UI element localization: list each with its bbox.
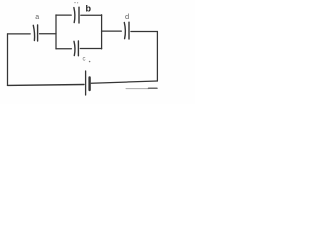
capacitor d (124, 22, 129, 39)
wire box to d (102, 30, 122, 32)
capacitor c (74, 41, 78, 56)
wire bottom right (91, 81, 157, 83)
node left rail (55, 15, 57, 49)
battery (86, 71, 90, 95)
wire right vertical (156, 32, 158, 82)
wire bottom left (8, 84, 85, 87)
speck marks (74, 2, 75, 3)
wire bottom branch right (80, 48, 101, 50)
svg-text:c: c (83, 57, 86, 63)
wire top-left horizontal (8, 33, 31, 35)
wire top branch left (56, 14, 71, 16)
wire bottom branch left (56, 48, 71, 50)
wire a to box (40, 33, 57, 35)
wire top branch right (81, 14, 102, 16)
node right rail (101, 15, 103, 49)
capacitor b (74, 7, 79, 23)
svg-text:d: d (125, 12, 129, 21)
capacitor a (33, 25, 37, 41)
svg-text:a: a (35, 14, 39, 21)
wire shadow segment bottom right (126, 88, 149, 90)
wire d to right corner (131, 31, 158, 33)
wire left vertical (7, 34, 9, 86)
svg-text:b: b (86, 4, 92, 14)
